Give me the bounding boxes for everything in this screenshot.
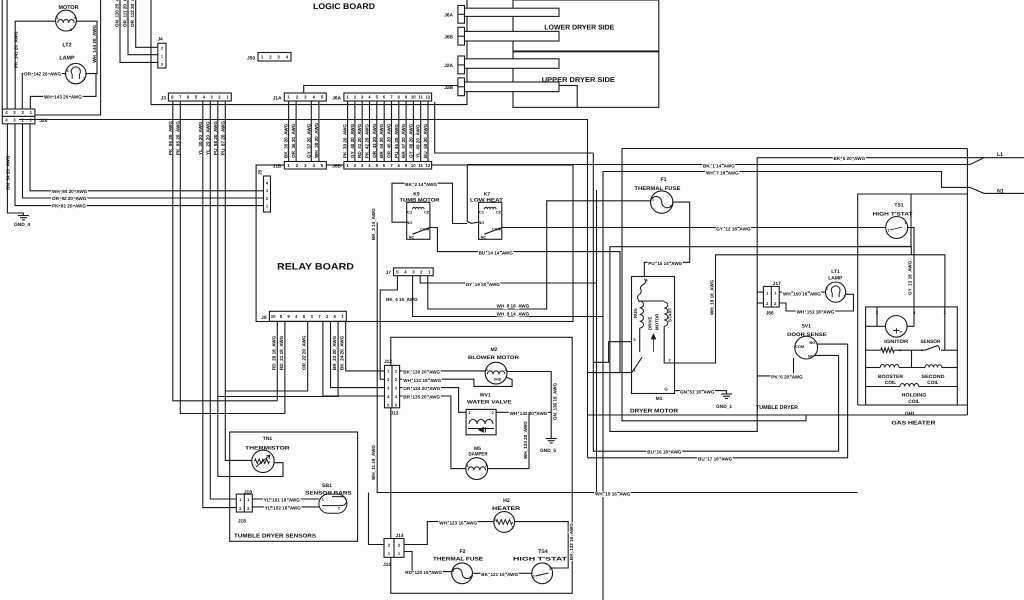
svg-text:OR_22 20_AWG: OR_22 20_AWG <box>302 335 307 370</box>
svg-text:SENSOR: SENSOR <box>920 339 941 345</box>
motor START winding <box>664 302 668 326</box>
svg-text:IGNITOR: IGNITOR <box>884 339 909 345</box>
svg-text:PK_141 20_AWG: PK_141 20_AWG <box>13 31 18 68</box>
wire K7 NO feed from BK_1 line <box>467 165 478 224</box>
wire igniter to coils <box>911 350 913 367</box>
component box blower water valve damper heater <box>391 337 572 593</box>
svg-text:J9: J9 <box>261 315 267 321</box>
svg-text:BK_121 16_AWG: BK_121 16_AWG <box>481 572 518 577</box>
svg-text:PU_15 14_AWG: PU_15 14_AWG <box>648 261 682 266</box>
thermostat TS1 box <box>858 194 911 246</box>
svg-text:WH_143 20_AWG: WH_143 20_AWG <box>44 94 82 99</box>
connector J4 <box>158 43 166 68</box>
svg-text:LOGIC BOARD: LOGIC BOARD <box>313 2 375 11</box>
svg-text:GN_110 20_AWG: GN_110 20_AWG <box>115 0 120 27</box>
svg-text:J6B: J6B <box>332 164 341 170</box>
svg-text:START: START <box>668 307 673 322</box>
svg-text:J20: J20 <box>39 118 47 124</box>
cable bar J6A <box>464 8 559 16</box>
svg-text:OR_43 20_AWG: OR_43 20_AWG <box>372 123 377 158</box>
svg-text:THERMAL FUSE: THERMAL FUSE <box>433 557 484 563</box>
wire stub logic board to J2A <box>458 64 467 66</box>
box UPPER DRYER SIDE <box>513 52 659 108</box>
svg-text:GY_40 20_AWG: GY_40 20_AWG <box>350 123 355 158</box>
wire OR_82 J20 pin2 to J5 pin2 <box>23 124 264 198</box>
svg-text:J1A: J1A <box>273 96 282 102</box>
connector J5 <box>264 176 271 212</box>
connector J1A <box>284 93 326 101</box>
wire SV1 NC to BU_16 riser <box>814 354 839 356</box>
svg-text:OR_111 20_AWG: OR_111 20_AWG <box>123 0 128 27</box>
wire console feed 1 <box>1 0 3 109</box>
svg-text:10: 10 <box>271 314 276 319</box>
svg-text:C1: C1 <box>407 211 412 215</box>
svg-text:2: 2 <box>905 221 907 225</box>
wire YL_29 J3 pin3 to J19 <box>210 101 236 499</box>
svg-text:GN_34 20_AWG: GN_34 20_AWG <box>6 155 11 190</box>
svg-text:3: 3 <box>83 77 85 81</box>
wire BK_1 to L1 <box>467 158 984 165</box>
svg-text:C2: C2 <box>496 211 501 215</box>
svg-text:1: 1 <box>494 518 496 522</box>
svg-text:BU_50 20_AWG: BU_50 20_AWG <box>423 123 428 158</box>
wire PU_46 J6A pin8 to J6B <box>398 101 400 162</box>
svg-text:RELAY BOARD: RELAY BOARD <box>277 262 354 272</box>
svg-text:WH_151 18_AWG: WH_151 18_AWG <box>797 309 835 314</box>
svg-text:WATER VALVE: WATER VALVE <box>467 399 513 405</box>
svg-text:12: 12 <box>426 163 431 168</box>
wire BK_122 heater to TS4 <box>515 522 569 568</box>
svg-text:DRYER MOTOR: DRYER MOTOR <box>630 408 678 414</box>
svg-text:1: 1 <box>161 55 163 59</box>
svg-text:YL_30 20_AWG: YL_30 20_AWG <box>198 121 203 155</box>
svg-text:F2: F2 <box>459 549 465 555</box>
svg-text:LT1: LT1 <box>831 269 840 275</box>
svg-text:RD_20 18_AWG: RD_20 18_AWG <box>271 335 276 370</box>
svg-text:2: 2 <box>670 205 672 209</box>
svg-text:RD_21 18_AWG: RD_21 18_AWG <box>279 335 284 370</box>
wire GY_48 J6A pin10 to J6B <box>412 101 414 162</box>
svg-text:1: 1 <box>533 575 535 579</box>
wire WH_144 motor to lamp node <box>76 21 97 73</box>
svg-text:GND: GND <box>494 378 502 382</box>
wire BR_135 J12 to damper <box>400 396 466 469</box>
svg-text:PK_86 20_AWG: PK_86 20_AWG <box>168 121 173 155</box>
wire PK_42 J6A pin4 to J6B <box>369 101 371 162</box>
svg-text:J1B: J1B <box>273 164 282 170</box>
connector J17 J66 <box>763 286 779 307</box>
svg-text:PU_87 20_AWG: PU_87 20_AWG <box>220 121 225 155</box>
wire GN_34 J20 pin4 to ground <box>7 124 23 216</box>
svg-text:WH_11 18_AWG: WH_11 18_AWG <box>371 445 376 480</box>
wire OR_36 J1A pin2 to J1B <box>295 101 297 162</box>
svg-text:WH_7 18_AWG: WH_7 18_AWG <box>706 170 739 175</box>
svg-text:J5: J5 <box>258 169 263 175</box>
console enclosure box <box>19 0 101 120</box>
svg-text:OR_36 20_AWG: OR_36 20_AWG <box>291 123 296 158</box>
svg-text:RD_120 16_AWG: RD_120 16_AWG <box>405 570 442 575</box>
ground GND_1 <box>721 393 732 395</box>
wire GN_51 motor G to ground <box>675 391 727 394</box>
box LOWER DRYER SIDE <box>513 0 659 51</box>
wire BU_50 J6A pin12 to J6B <box>427 101 429 162</box>
svg-text:11: 11 <box>418 163 423 168</box>
motor thermal protector squiggle <box>638 279 646 303</box>
wire WH_132 valve to gnd node <box>496 411 551 413</box>
svg-text:J18: J18 <box>238 519 246 525</box>
svg-text:J15: J15 <box>383 562 391 568</box>
svg-text:BK_35 20_AWG: BK_35 20_AWG <box>284 123 289 158</box>
svg-text:BK_130 20_AWG: BK_130 20_AWG <box>403 369 440 374</box>
connector J6B <box>458 27 465 45</box>
svg-text:BR_23 20_AWG: BR_23 20_AWG <box>332 335 337 370</box>
svg-text:BK_1 14_AWG: BK_1 14_AWG <box>703 163 735 168</box>
wire BK_2 K9 NO to K7 NO link <box>392 183 467 223</box>
svg-text:GN_51 18_AWG: GN_51 18_AWG <box>680 389 715 394</box>
wire motor pin5 to BU_16 <box>593 342 631 363</box>
wire PU_87 J3 pin1 to thermistor left <box>225 101 252 460</box>
svg-text:PK_81 20_AWG: PK_81 20_AWG <box>52 204 86 209</box>
svg-text:NO: NO <box>479 221 485 225</box>
svg-text:3: 3 <box>70 28 72 32</box>
svg-text:2: 2 <box>844 295 846 299</box>
svg-text:1: 1 <box>633 369 635 373</box>
motor RUN winding <box>640 301 644 328</box>
svg-text:LAMP: LAMP <box>828 276 843 282</box>
svg-text:YL_101 18_AWG: YL_101 18_AWG <box>264 497 300 502</box>
svg-text:GND_1: GND_1 <box>716 404 732 410</box>
svg-text:N1: N1 <box>997 189 1004 195</box>
svg-text:J2B: J2B <box>444 85 453 91</box>
svg-text:PK_39 20_AWG: PK_39 20_AWG <box>343 124 348 158</box>
svg-text:WH_8 18_AWG: WH_8 18_AWG <box>497 303 530 308</box>
wire line A from logic board to BU_16 leg <box>435 102 594 153</box>
svg-text:J7: J7 <box>386 270 392 276</box>
connector J19 J18 <box>236 494 252 512</box>
wire long loop console to heater right side <box>19 120 588 458</box>
svg-text:BOOSTER: BOOSTER <box>878 374 904 380</box>
svg-text:WH_133 20_AWG: WH_133 20_AWG <box>523 421 528 459</box>
wire J17 pin stubs <box>757 291 763 293</box>
gas heater inner box <box>866 307 958 405</box>
svg-text:BK_2 14_AWG: BK_2 14_AWG <box>405 182 437 187</box>
svg-text:2: 2 <box>470 576 472 580</box>
svg-text:HOLDING: HOLDING <box>902 392 927 398</box>
svg-text:COIL: COIL <box>927 380 939 386</box>
svg-text:RUN: RUN <box>633 308 638 318</box>
svg-text:LOWER DRYER SIDE: LOWER DRYER SIDE <box>544 25 614 32</box>
svg-text:J2A: J2A <box>444 63 453 69</box>
wire WH_84 J20 pin1 to J5 pin3 <box>30 124 264 191</box>
svg-text:THERMISTOR: THERMISTOR <box>245 445 290 451</box>
svg-text:GY_48 20_AWG: GY_48 20_AWG <box>408 123 413 158</box>
wire BU_17 to SV1 NO <box>588 344 848 458</box>
svg-text:GND_5: GND_5 <box>540 448 556 454</box>
svg-text:J6A: J6A <box>332 96 341 102</box>
svg-text:YL_102 18_AWG: YL_102 18_AWG <box>265 505 301 510</box>
wire WH_8 J7 pin1 to thermal fuse F1 <box>428 201 651 309</box>
wire J1A pin3 up and over to upper dryer box <box>304 86 578 108</box>
svg-text:HEATER: HEATER <box>492 506 520 512</box>
wire PK_86 J3 pin8 to RD_20 node <box>173 101 277 401</box>
wire GY_13 TS1 to igniter <box>907 228 914 327</box>
wire YL_30 J3 pin4 to J18 <box>203 101 237 508</box>
svg-text:2: 2 <box>549 567 551 571</box>
svg-text:BR_47 20_AWG: BR_47 20_AWG <box>401 123 406 158</box>
svg-text:BLOWER MOTOR: BLOWER MOTOR <box>468 355 519 361</box>
svg-text:1: 1 <box>486 368 488 372</box>
svg-text:NC: NC <box>808 355 814 359</box>
cable bar J6B <box>464 31 559 41</box>
svg-text:WH_144 20_AWG: WH_144 20_AWG <box>92 25 97 63</box>
motor top link <box>640 300 665 302</box>
svg-text:GH1: GH1 <box>905 411 915 417</box>
svg-text:GY_13 18_AWG: GY_13 18_AWG <box>908 260 913 295</box>
svg-text:10: 10 <box>411 163 416 168</box>
wire blower pin2 to GND_5 node <box>507 372 551 439</box>
wire OR_112 to J4 <box>136 0 158 47</box>
svg-text:1: 1 <box>652 198 654 202</box>
svg-text:MOTOR: MOTOR <box>655 313 660 330</box>
svg-text:SV1: SV1 <box>801 324 811 330</box>
tumble dryer sensors box <box>230 432 358 541</box>
ground GND_5 <box>546 438 557 440</box>
svg-text:DRIVE: DRIVE <box>648 317 653 330</box>
wire PU_88 J3 pin2 to thermistor right <box>218 101 283 477</box>
svg-text:J17: J17 <box>773 281 781 287</box>
svg-text:1: 1 <box>826 287 828 291</box>
svg-text:3: 3 <box>161 63 163 67</box>
wire WH_9 J7 pin3 <box>413 276 603 317</box>
connector J6A <box>458 6 465 24</box>
wire SV1 NO to BU_17 riser <box>817 343 847 345</box>
logic board outline <box>151 0 467 105</box>
svg-text:TN1: TN1 <box>263 436 273 442</box>
booster and second coil row <box>866 367 881 369</box>
wire BK_4 J7 pin5 to J12 <box>380 276 397 380</box>
holding coil row <box>866 386 900 388</box>
svg-text:GY_19 20_AWG: GY_19 20_AWG <box>466 282 501 287</box>
wire J9 to J12 pin4 row <box>323 321 385 396</box>
cable bar J2B <box>464 82 559 92</box>
svg-text:1: 1 <box>469 411 471 415</box>
wire WH_7 neutral riser to N1 <box>603 172 1024 600</box>
svg-text:12: 12 <box>426 95 431 100</box>
svg-text:NC: NC <box>481 235 487 239</box>
svg-text:BK_122 16_AWG: BK_122 16_AWG <box>569 523 574 560</box>
wire motor pin1 to loop wire <box>588 372 632 374</box>
connector J7 <box>394 268 434 276</box>
svg-text:4: 4 <box>67 69 69 73</box>
svg-text:M2: M2 <box>491 347 498 353</box>
svg-text:J13: J13 <box>390 411 398 417</box>
connector J2B <box>458 78 465 96</box>
wire RD_41 J6A pin3 to J6B <box>361 101 363 162</box>
svg-text:PU_88 20_AWG: PU_88 20_AWG <box>213 121 218 155</box>
svg-text:J14: J14 <box>395 533 403 539</box>
svg-text:OR_112 20_AWG: OR_112 20_AWG <box>130 0 135 27</box>
svg-text:NO: NO <box>810 341 816 345</box>
svg-text:DOOR SENSE: DOOR SENSE <box>787 332 827 338</box>
wire stub logic board to J6B <box>458 35 467 37</box>
svg-text:COIL: COIL <box>885 380 897 386</box>
wire PK_6 J66 to SV1 COM <box>757 358 793 376</box>
svg-text:J4: J4 <box>157 37 163 43</box>
svg-text:J12: J12 <box>384 359 392 365</box>
svg-text:GN_136 18_AWG: GN_136 18_AWG <box>553 383 558 420</box>
svg-text:WH_84 20_AWG: WH_84 20_AWG <box>52 189 88 194</box>
svg-text:BK_3 14_AWG: BK_3 14_AWG <box>371 208 376 240</box>
svg-text:2: 2 <box>492 411 494 415</box>
svg-text:J6A: J6A <box>444 13 453 19</box>
svg-text:BR_135 20_AWG: BR_135 20_AWG <box>403 395 440 400</box>
svg-text:1: 1 <box>57 16 59 20</box>
wire igniter circle left <box>866 325 886 327</box>
wire BK_24 J9 to J12 pin1 <box>346 321 385 371</box>
svg-text:C1: C1 <box>479 211 484 215</box>
svg-text:GND_4: GND_4 <box>14 222 30 228</box>
svg-text:WH_131 18_AWG: WH_131 18_AWG <box>403 378 441 383</box>
wire WH_131 J12 to blower pin2 <box>400 377 512 386</box>
wire OR_45 J6A pin7 to J6B <box>391 101 393 162</box>
wire OR_111 to J4 <box>128 0 158 55</box>
svg-text:2: 2 <box>505 368 507 372</box>
wire WH_123 J14 to heater <box>404 522 494 545</box>
svg-text:BU_14 14_AWG: BU_14 14_AWG <box>479 250 514 255</box>
wire RD_20 J9 to PK_86 <box>276 321 278 401</box>
svg-text:DAMPER: DAMPER <box>469 452 488 458</box>
svg-text:PK_42 20_AWG: PK_42 20_AWG <box>365 124 370 158</box>
svg-text:J3: J3 <box>161 96 167 102</box>
svg-text:RD_41 20_AWG: RD_41 20_AWG <box>357 123 362 158</box>
wire gas heater pin3 stub <box>876 307 878 326</box>
igniter resistor row <box>866 349 881 351</box>
connector J3 <box>168 93 231 101</box>
wire GY_40 J6A pin2 to J6B <box>354 101 356 162</box>
svg-text:GY_37 20_AWG: GY_37 20_AWG <box>306 123 311 158</box>
svg-text:WH_150 18_AWG: WH_150 18_AWG <box>783 291 821 296</box>
svg-text:WH_19 16_AWG: WH_19 16_AWG <box>595 491 631 496</box>
connector J20 <box>2 109 35 116</box>
svg-text:J66: J66 <box>766 311 774 317</box>
svg-text:H2: H2 <box>503 498 510 504</box>
svg-text:TS4: TS4 <box>538 549 548 555</box>
wire BR_44 J6A pin6 to J6B <box>383 101 385 162</box>
svg-text:WH_9 14_AWG: WH_9 14_AWG <box>497 311 530 316</box>
svg-text:LT2: LT2 <box>62 43 71 49</box>
svg-text:WH_123 16_AWG: WH_123 16_AWG <box>439 520 477 525</box>
svg-text:2: 2 <box>512 526 514 530</box>
wire stub logic board to J2B <box>458 86 467 88</box>
wire RD_21 J9 to PK_85 <box>284 321 286 413</box>
connector J1B <box>284 162 326 170</box>
svg-text:WH_18 18_AWG: WH_18 18_AWG <box>710 279 715 315</box>
wire YL_102 J18 to SB1 <box>252 506 320 508</box>
svg-text:COM: COM <box>795 345 804 349</box>
svg-text:HIGH T'STAT: HIGH T'STAT <box>513 557 568 563</box>
gas heater assembly box <box>858 194 968 405</box>
wire OR_142 lamp to J20 pin2 <box>22 74 65 109</box>
svg-text:LAMP: LAMP <box>59 56 75 62</box>
wire OR_43 J6A pin5 to J6B <box>376 101 378 162</box>
wire PK_81 J20 pin3 to J5 pin1 <box>15 124 264 206</box>
wire BK_3 WH_11 long vertical K9 NO to heater feed <box>377 222 858 492</box>
svg-text:C2: C2 <box>424 211 429 215</box>
dryer motor M1 box <box>632 277 675 394</box>
svg-text:J19: J19 <box>244 490 252 496</box>
connector J2A <box>458 56 465 74</box>
wire GY_19 J7 pin2 <box>420 276 596 283</box>
svg-text:2: 2 <box>161 47 163 51</box>
svg-text:GAS HEATER: GAS HEATER <box>891 420 935 426</box>
connector J14 J15 <box>384 539 404 558</box>
wire WH_18 motor pin2 to gas heater sensor <box>675 255 945 363</box>
svg-text:1: 1 <box>888 229 890 233</box>
svg-text:11: 11 <box>418 95 423 100</box>
wire WH_151 J66 to LT1 pin2 <box>779 294 853 311</box>
connector J9 <box>269 311 346 321</box>
wire RD_120 J15 to F2 <box>404 552 452 572</box>
motor arrow <box>651 334 655 352</box>
svg-text:2: 2 <box>338 507 340 511</box>
svg-text:L1: L1 <box>997 152 1003 158</box>
wire WH_143 lamp to J20 pin1 <box>30 74 96 109</box>
svg-text:PU_46 20_AWG: PU_46 20_AWG <box>394 124 399 158</box>
svg-text:2: 2 <box>668 359 670 363</box>
connector J12 J13 <box>385 365 400 407</box>
tumble dryer enclosure box <box>622 149 967 421</box>
cable bar J2A <box>464 59 559 69</box>
svg-text:BU_16 18_AWG: BU_16 18_AWG <box>647 450 682 455</box>
svg-text:OR_142 20_AWG: OR_142 20_AWG <box>24 72 61 77</box>
svg-text:2: 2 <box>485 464 487 468</box>
svg-text:OR_134 20_AWG: OR_134 20_AWG <box>403 386 440 391</box>
svg-text:BK_5 20_AWG: BK_5 20_AWG <box>834 156 866 161</box>
svg-text:G: G <box>664 387 667 392</box>
svg-text:1: 1 <box>453 569 455 573</box>
svg-text:TUMBLE DRYER: TUMBLE DRYER <box>756 405 798 411</box>
wire stub logic board to J6A <box>458 13 467 15</box>
connector J6B <box>344 162 432 170</box>
svg-text:SB1: SB1 <box>322 483 332 489</box>
wire K9 COM to BU_14 <box>430 228 620 373</box>
svg-text:1: 1 <box>467 464 469 468</box>
svg-text:WH_38 20_AWG: WH_38 20_AWG <box>314 122 319 158</box>
wire YL_49 J6A pin11 to J6B <box>420 101 422 162</box>
ground GND_4 <box>18 215 29 217</box>
wire WH_150 J17 to LT1 <box>779 291 825 293</box>
relay board outline <box>256 165 573 322</box>
svg-text:PK_85 20_AWG: PK_85 20_AWG <box>175 121 180 155</box>
wire console feed 2 <box>6 0 8 109</box>
wire OR_134 J12 to water valve <box>400 388 467 413</box>
wire gas heater pin2 vertical <box>944 307 946 350</box>
igniter control circle <box>886 316 908 338</box>
svg-text:PK_6 20_AWG: PK_6 20_AWG <box>771 374 803 379</box>
svg-text:J50: J50 <box>247 56 255 62</box>
wire BR_47 J6A pin9 to J6B <box>405 101 407 162</box>
svg-text:5: 5 <box>633 338 635 342</box>
svg-text:4: 4 <box>74 16 76 20</box>
svg-text:OR_82 20_AWG: OR_82 20_AWG <box>52 196 87 201</box>
wire J9 to J12 pin3 <box>331 321 385 387</box>
svg-text:SECOND: SECOND <box>922 374 946 380</box>
svg-text:YL_29 20_AWG: YL_29 20_AWG <box>205 121 210 155</box>
wire BK_5 lamp feed to L1 <box>610 158 1024 432</box>
svg-text:GY_12 18_AWG: GY_12 18_AWG <box>716 226 751 231</box>
wire BK_35 J1A pin1 to J1B <box>288 101 290 162</box>
wire PK_85 J3 pin7 to RD_21 node <box>180 101 285 414</box>
